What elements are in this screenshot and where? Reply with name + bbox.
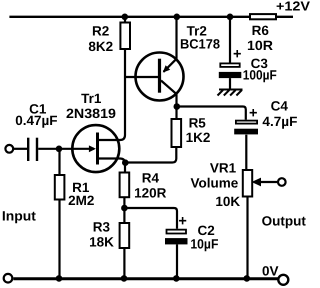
wire R1 to 0V rail	[58, 200, 60, 279]
svg-text:120R: 120R	[134, 185, 167, 200]
capacitor C1	[28, 138, 37, 161]
svg-text:Input: Input	[2, 209, 37, 224]
wire collector node to C4	[177, 107, 246, 120]
wire rail to C3	[229, 17, 231, 63]
svg-text:2N3819: 2N3819	[66, 106, 116, 121]
svg-text:Tr1: Tr1	[81, 91, 102, 106]
svg-text:+: +	[249, 106, 257, 122]
capacitor C2	[165, 230, 188, 245]
svg-text:+: +	[178, 214, 186, 230]
transistor Tr1 2N3819	[59, 125, 125, 172]
wire R3 to 0V rail	[123, 248, 125, 279]
svg-text:R5: R5	[189, 115, 207, 130]
svg-text:R3: R3	[93, 219, 111, 234]
wire C1 to gate node	[38, 148, 59, 150]
svg-text:C4: C4	[271, 99, 289, 114]
svg-text:BC178: BC178	[180, 36, 220, 51]
wire R4 to R3	[123, 197, 125, 223]
capacitor C4	[234, 121, 258, 135]
svg-text:1K2: 1K2	[186, 130, 211, 145]
svg-text:2M2: 2M2	[68, 193, 94, 208]
wire VR1 to 0V rail	[246, 197, 248, 279]
capacitor C3	[219, 63, 242, 78]
terminal 0V right	[278, 275, 288, 285]
wire collector node to R5	[175, 107, 177, 120]
svg-text:10R: 10R	[247, 38, 273, 53]
svg-text:100µF: 100µF	[243, 68, 277, 83]
terminal Input	[5, 145, 13, 153]
resistor R1	[55, 175, 65, 200]
node emitter/rail	[174, 13, 181, 20]
svg-text:R4: R4	[142, 170, 160, 185]
transistor Tr2 BC178	[136, 53, 184, 101]
wire R2 top to rail	[124, 17, 126, 23]
wire bottom rail 0V	[13, 277, 278, 280]
wire Tr2 base	[125, 76, 158, 78]
svg-text:Volume: Volume	[191, 176, 239, 191]
wire C3 to ground	[229, 78, 231, 89]
node C2/0V	[173, 275, 180, 282]
svg-text:Output: Output	[262, 214, 307, 229]
svg-text:0V: 0V	[262, 264, 279, 279]
ground	[218, 90, 243, 96]
wire R4 node to C2	[124, 208, 177, 229]
svg-text:0.47µF: 0.47µF	[15, 113, 57, 128]
svg-text:R6: R6	[252, 23, 270, 38]
svg-text:+: +	[233, 46, 241, 62]
node VR1/0V	[244, 275, 251, 282]
resistor R5	[172, 119, 182, 147]
wire drain up to base node	[124, 49, 126, 134]
svg-text:VR1: VR1	[210, 161, 237, 176]
wire top rail +12V	[9, 16, 250, 18]
resistor R3	[120, 223, 130, 248]
svg-text:18K: 18K	[89, 235, 114, 250]
svg-text:10K: 10K	[215, 194, 240, 209]
wire Tr2 collector down	[175, 94, 177, 110]
wiper arrow VR1	[252, 178, 278, 187]
node collector junction	[174, 103, 181, 110]
resistor R6	[250, 14, 276, 19]
wire gate node down to R1	[58, 149, 60, 175]
terminal Output	[278, 178, 286, 186]
node source junction	[122, 159, 129, 166]
svg-text:10µF: 10µF	[190, 237, 218, 252]
resistor R2	[120, 23, 130, 50]
node R1/0V	[56, 275, 63, 282]
svg-text:+12V: +12V	[276, 0, 310, 14]
wire R5 bottom to source node	[125, 147, 176, 163]
resistor R4	[120, 173, 130, 198]
node C3/rail	[227, 13, 234, 20]
wire Tr2 emitter to rail	[175, 17, 177, 59]
node gate junction	[56, 146, 63, 153]
node R4/R3/C2 junction	[121, 205, 128, 212]
svg-text:R2: R2	[92, 23, 109, 38]
wire C4 to VR1	[245, 135, 247, 170]
node R2/rail	[122, 13, 129, 20]
potentiometer VR1	[243, 170, 252, 197]
wire from R6 to +12V terminal	[276, 16, 293, 18]
svg-text:4.7µF: 4.7µF	[262, 114, 297, 129]
wire source node to R4	[124, 163, 126, 173]
terminal bottom-left	[4, 274, 13, 283]
wire C2 to 0V rail	[176, 244, 178, 278]
node R3/0V	[121, 275, 128, 282]
wire input to C1	[14, 148, 27, 150]
svg-text:8K2: 8K2	[88, 39, 113, 54]
